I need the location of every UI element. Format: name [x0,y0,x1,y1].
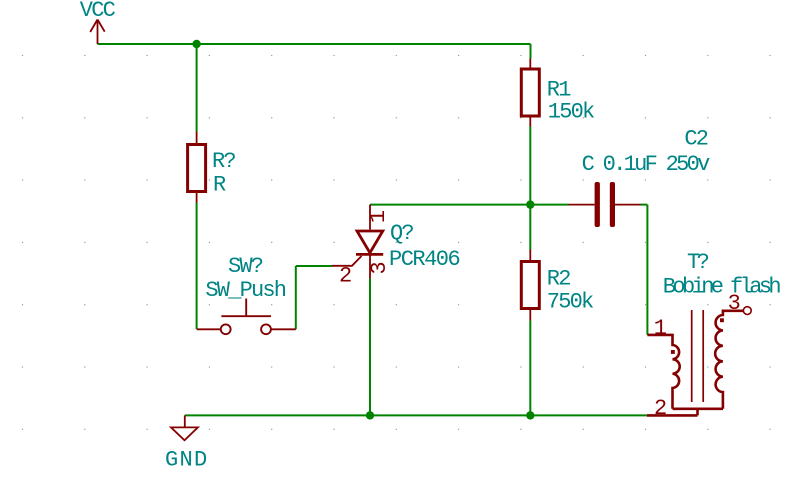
svg-text:T?: T? [687,250,709,275]
svg-text:SW?: SW? [228,254,263,279]
svg-text:Q?: Q? [390,221,413,246]
svg-text:R2: R2 [547,266,570,291]
svg-text:C 0.1uF 250v: C 0.1uF 250v [582,152,711,177]
svg-text:3: 3 [728,291,741,316]
svg-text:1: 1 [366,210,391,223]
svg-text:1: 1 [654,316,667,341]
svg-text:750k: 750k [547,290,594,315]
svg-text:150k: 150k [548,100,595,125]
svg-text:3: 3 [367,261,392,274]
svg-text:C2: C2 [684,126,707,151]
svg-text:R: R [213,172,226,197]
svg-text:VCC: VCC [80,0,116,23]
svg-text:Bobine flash: Bobine flash [663,274,781,299]
svg-text:R?: R? [212,149,235,174]
svg-text:GND: GND [165,448,209,473]
svg-text:2: 2 [339,264,352,289]
svg-text:SW_Push: SW_Push [205,278,285,303]
svg-text:PCR406: PCR406 [389,247,460,272]
svg-text:2: 2 [654,396,667,421]
